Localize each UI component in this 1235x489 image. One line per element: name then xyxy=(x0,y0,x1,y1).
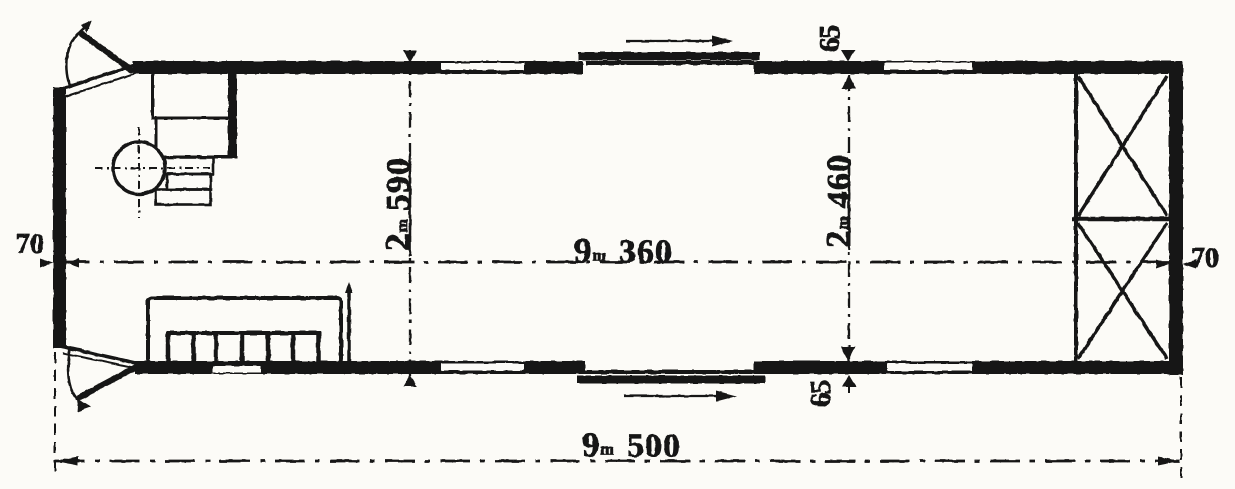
top-left door swing arrowhead xyxy=(81,20,92,33)
bottom dimension extension line left xyxy=(54,352,56,472)
front taper wall bottom-left outer line xyxy=(60,346,140,364)
svg-text:70: 70 xyxy=(1191,243,1219,274)
2m590 bottom arrow xyxy=(403,375,417,387)
X-frame upper diagonal 2 xyxy=(1078,76,1167,216)
circle crosshair horizontal xyxy=(95,167,210,169)
svg-text:9m500: 9m500 xyxy=(582,426,681,465)
staircase step 5 xyxy=(156,190,211,205)
window top-right W2 xyxy=(884,63,972,71)
X-frame lower diagonal 1 xyxy=(1078,223,1167,359)
staircase step 3 xyxy=(165,158,213,175)
65 bottom tick xyxy=(842,375,856,387)
2m460 bottom arrow xyxy=(841,347,855,361)
svg-text:9m360: 9m360 xyxy=(574,232,673,271)
vertical dimension line 2m460 xyxy=(848,75,850,361)
window bottom-right W5 xyxy=(887,364,972,372)
front taper wall top-left outer line xyxy=(59,65,135,90)
window bottom-mid W4 xyxy=(441,364,524,371)
bottom-left door swing arrowhead xyxy=(77,399,91,412)
staircase thick right edge xyxy=(228,70,237,158)
bottom sliding door panel xyxy=(577,376,765,384)
bench outer outline xyxy=(148,298,341,363)
bench pole tip arrow xyxy=(345,282,353,293)
svg-text:65: 65 xyxy=(814,25,846,52)
staircase step block 1 xyxy=(153,70,232,118)
X-frame lower diagonal 2 xyxy=(1078,223,1167,359)
bottom wall right segment xyxy=(754,361,1183,374)
bottom sliding door threshold line xyxy=(585,370,757,374)
bottom slide direction arrow xyxy=(624,395,718,397)
top sliding door panel xyxy=(578,52,760,60)
2m460 top arrow xyxy=(842,75,856,89)
top-left door swing arc xyxy=(66,27,85,88)
65 top tick xyxy=(841,50,855,62)
right wall xyxy=(1169,61,1183,375)
right 70 dimension arrows xyxy=(1156,260,1169,269)
bottom dimension line 9m500 xyxy=(55,460,1180,463)
circle crosshair vertical xyxy=(138,127,140,218)
centerline (9m360 dimension line) xyxy=(60,261,1169,264)
X-frame upper diagonal 1 xyxy=(1078,76,1167,216)
front taper wall bottom-left inner line xyxy=(63,353,138,369)
bottom dimension extension line right xyxy=(1180,377,1182,483)
window top-left W1 xyxy=(441,63,524,70)
svg-text:65: 65 xyxy=(805,380,837,407)
top wall left segment xyxy=(133,61,583,74)
bench end pole xyxy=(347,288,351,362)
staircase step block 2 xyxy=(156,118,231,157)
svg-text:2m590: 2m590 xyxy=(378,157,417,251)
2m590 top arrow xyxy=(403,51,417,63)
bottom-left door leaf (open) xyxy=(80,366,138,397)
window bottom-left W3 xyxy=(213,366,261,373)
X-frame divider xyxy=(1072,217,1170,222)
staircase step 4 xyxy=(167,174,211,190)
top-left door leaf (open) xyxy=(82,34,131,70)
top sliding door threshold line xyxy=(586,61,754,66)
top wall right segment xyxy=(754,61,1183,74)
bottom wall left segment xyxy=(135,361,585,374)
X-frame left edge xyxy=(1074,74,1078,361)
front taper wall top-left inner line xyxy=(64,73,136,97)
vertical dimension line 2m590 xyxy=(409,50,411,388)
svg-text:70: 70 xyxy=(16,229,44,260)
top slide direction arrow xyxy=(626,40,714,42)
svg-text:2m460: 2m460 xyxy=(819,154,858,248)
stair circle (pivot) xyxy=(113,142,165,194)
bench seat top rail xyxy=(166,331,321,335)
bottom-left door swing arc xyxy=(68,349,82,403)
left 70 dimension arrows xyxy=(40,259,53,268)
bench seat divider bars xyxy=(168,333,319,362)
left wall xyxy=(53,87,66,348)
